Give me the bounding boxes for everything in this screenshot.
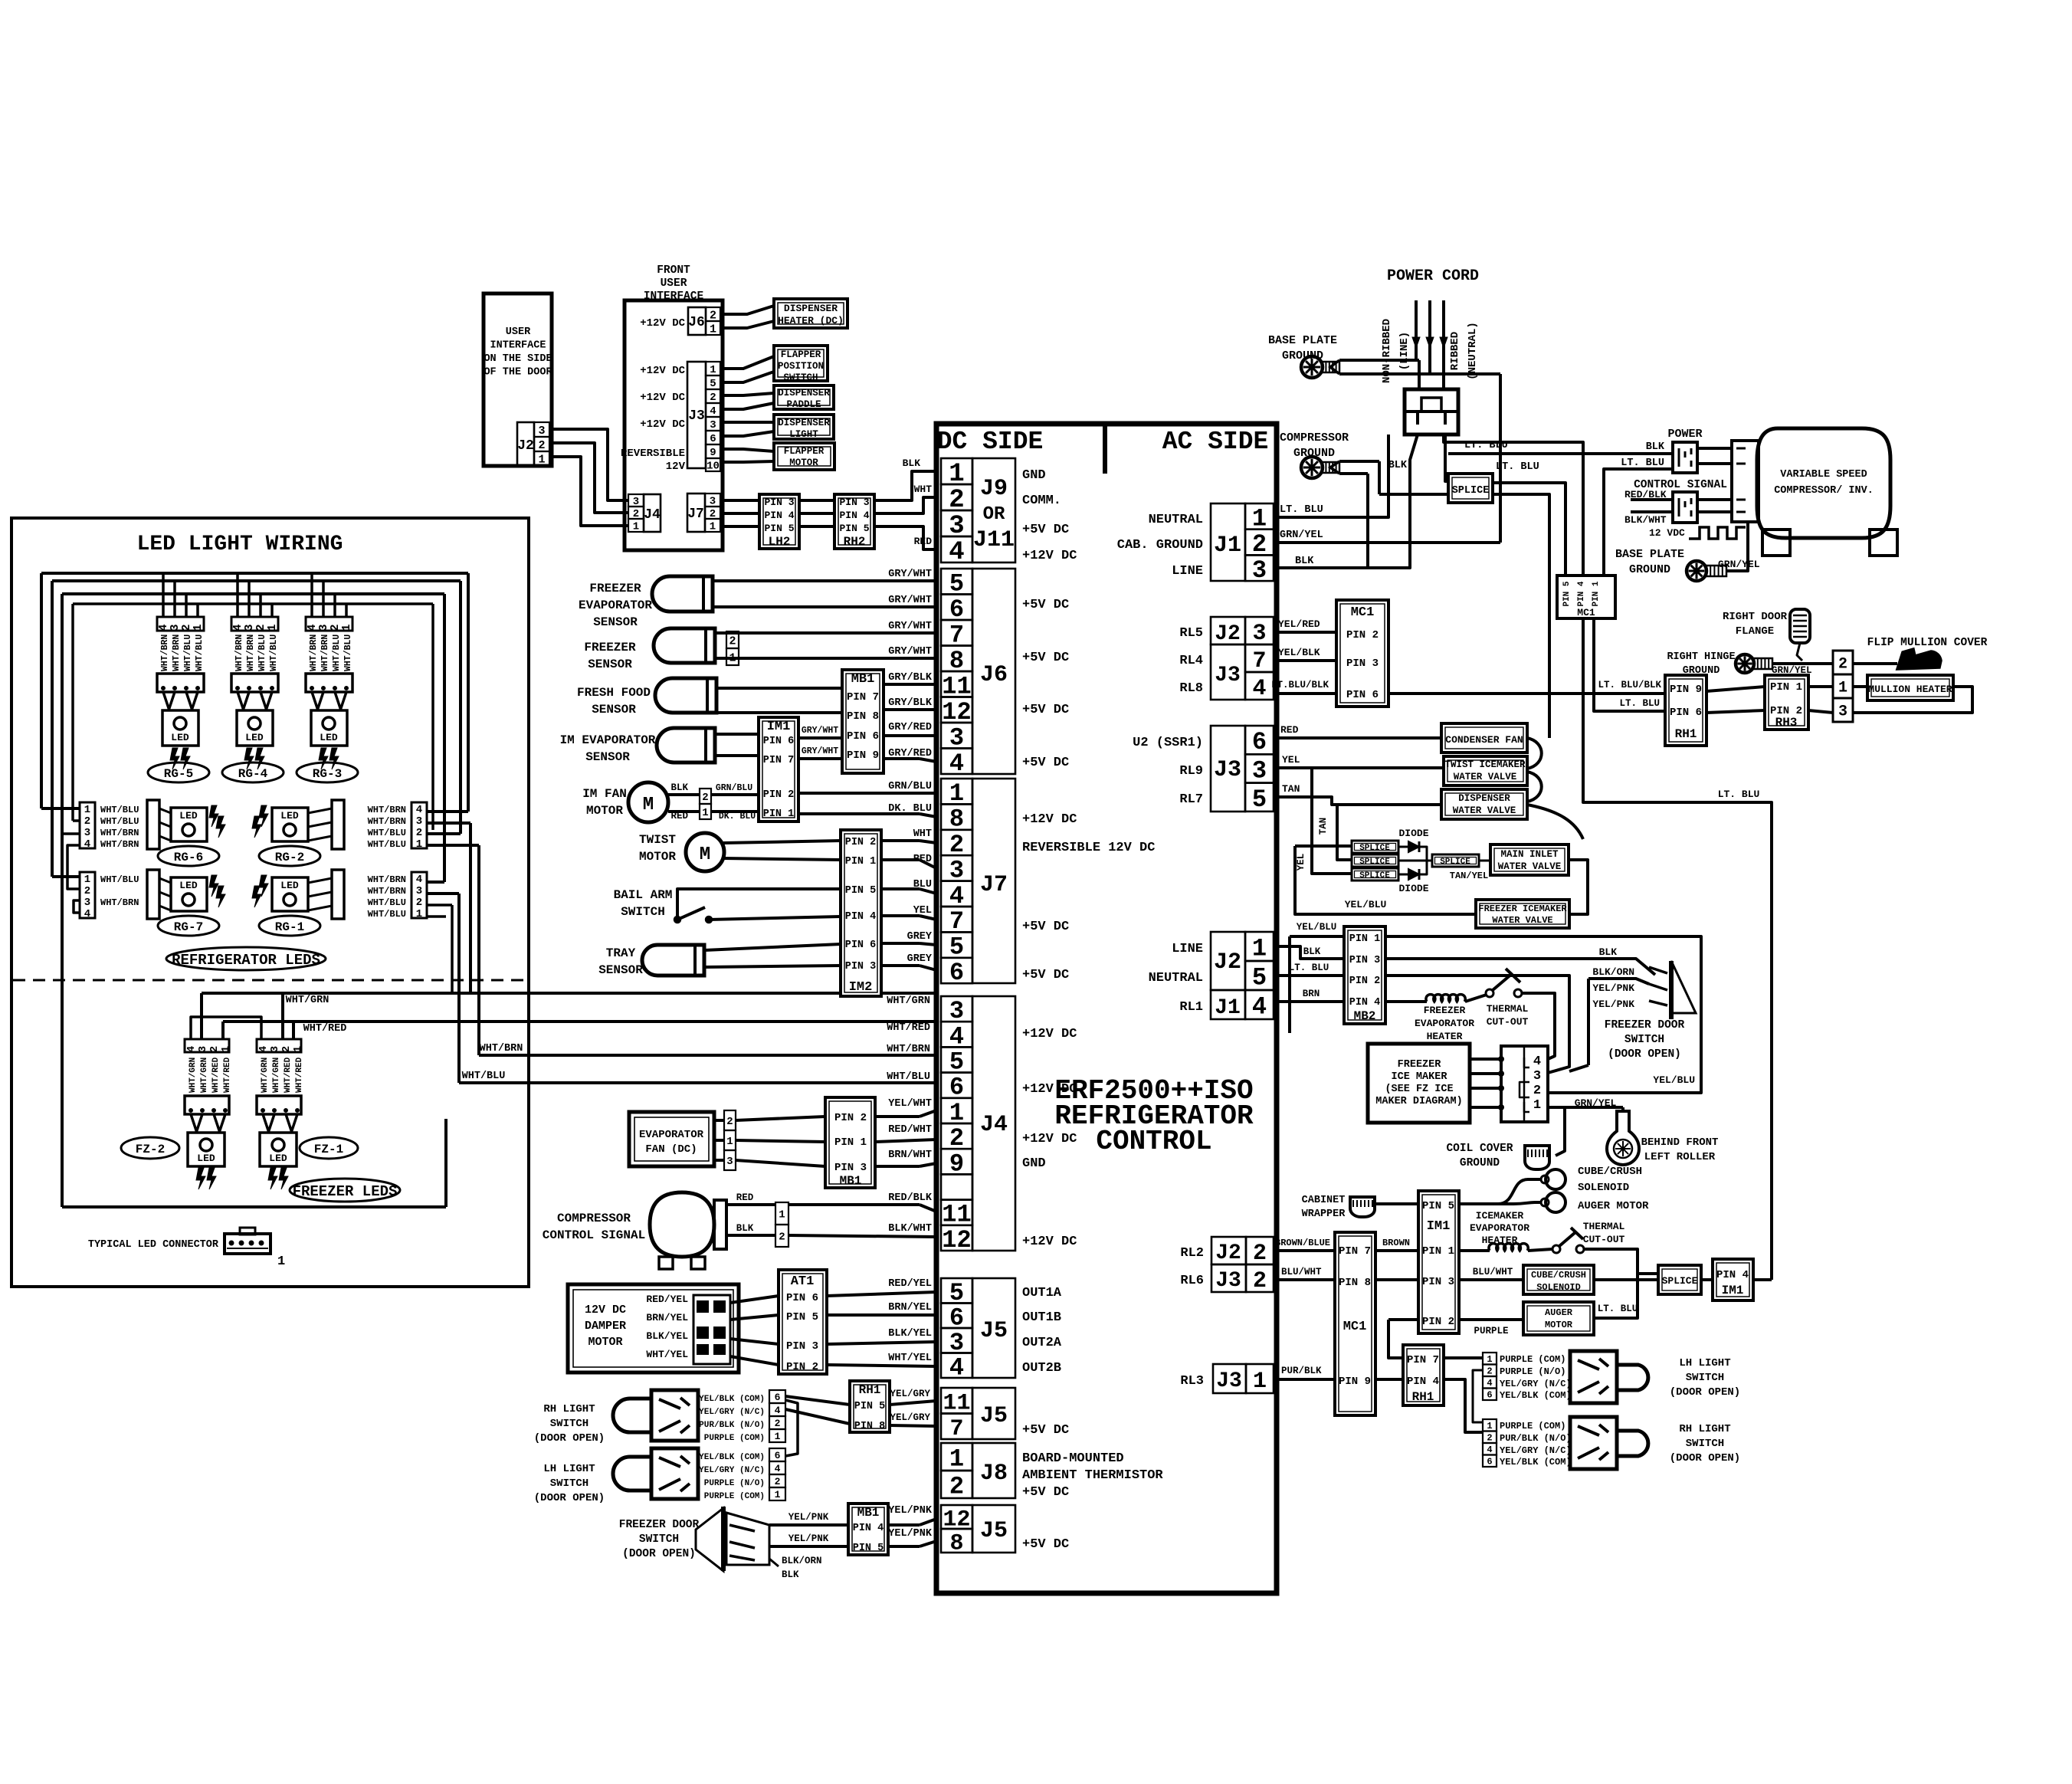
svg-text:1: 1 [775,1489,781,1500]
thermal cut-out 1 [1465,995,1487,1002]
LED module RG-7 connector [80,872,95,918]
svg-text:GRN/BLU: GRN/BLU [716,783,752,793]
LED module RG-6 lamp [171,808,207,841]
svg-text:WHT/BLU: WHT/BLU [462,1071,506,1082]
svg-text:RL6: RL6 [1180,1274,1204,1288]
svg-text:LT. BLU: LT. BLU [1496,461,1539,473]
wire GRY/BLK J6-12 [884,708,936,711]
svg-text:WHT/GRN: WHT/GRN [261,1058,270,1093]
svg-text:LINE: LINE [1172,942,1203,956]
wire J3 to dispenser light [720,421,774,424]
power cord wires [1415,300,1418,360]
svg-text:PIN 5: PIN 5 [839,523,869,534]
svg-text:SPLICE: SPLICE [1359,871,1390,881]
wire column link [1473,1370,1483,1422]
svg-text:SWITCH: SWITCH [1686,1438,1724,1450]
svg-text:5: 5 [1252,964,1267,992]
svg-text:3: 3 [84,897,90,909]
wire WHT/BRN [479,1054,936,1057]
svg-text:PIN 3: PIN 3 [1349,955,1381,966]
svg-text:PIN 6: PIN 6 [847,730,879,743]
wire DK. BLU J7-8 [798,812,920,815]
svg-text:PIN 7: PIN 7 [763,755,795,766]
svg-text:BRN/YEL: BRN/YEL [646,1312,688,1323]
wire RED/WHT J4-2 [875,1140,936,1142]
wire MC1 PIN8 to IM1 PIN3 [1375,1278,1418,1281]
svg-text:(NEUTRAL): (NEUTRAL) [1467,322,1479,380]
svg-text:WATER VALVE: WATER VALVE [1454,772,1517,782]
svg-text:+5V DC: +5V DC [1022,1537,1069,1552]
wire LT. BLU to MB2 PIN2 [1274,974,1344,977]
connector RH2 [834,494,874,549]
svg-text:YEL/RED: YEL/RED [1278,618,1320,630]
svg-text:1: 1 [416,838,422,851]
svg-text:WHT/YEL: WHT/YEL [646,1349,688,1360]
svg-text:CUBE/CRUSH: CUBE/CRUSH [1531,1270,1586,1281]
svg-text:WHT/BLU: WHT/BLU [332,635,342,671]
svg-text:YEL/BLU: YEL/BLU [1653,1074,1695,1086]
wire BRN/WHT J4-9 [875,1165,920,1168]
wire GRY/WHT J6-6 [713,605,936,608]
svg-text:IM1: IM1 [1427,1219,1451,1234]
svg-text:MAIN INLET: MAIN INLET [1500,849,1559,860]
svg-text:1: 1 [1253,1369,1267,1395]
svg-text:BLK: BLK [782,1569,799,1580]
connector RH1 hinge [1665,675,1706,746]
wire TAN dispenser valve [1274,797,1441,805]
splice 1 [1352,841,1398,853]
svg-text:+12V DC: +12V DC [640,317,685,330]
wire J3 to dispenser paddle [720,393,774,395]
svg-text:WHT/BLU: WHT/BLU [368,909,406,920]
svg-text:6: 6 [710,433,716,445]
svg-text:PIN 5: PIN 5 [1562,581,1572,606]
svg-text:DISPENSER: DISPENSER [784,303,838,314]
svg-text:PIN 9: PIN 9 [847,749,879,762]
svg-text:3: 3 [84,827,90,839]
svg-text:WHT/BLU: WHT/BLU [100,816,139,827]
svg-text:TAN/YEL: TAN/YEL [1450,871,1488,881]
svg-text:J5: J5 [980,1318,1008,1344]
svg-text:YEL/BLK (COM): YEL/BLK (COM) [699,1395,765,1404]
svg-text:WHT/BLU: WHT/BLU [195,635,205,671]
svg-text:WHT/BLU: WHT/BLU [368,897,406,908]
svg-text:2: 2 [775,1476,781,1487]
svg-text:FREEZER: FREEZER [584,641,636,654]
svg-text:2: 2 [1487,1366,1492,1377]
svg-text:3: 3 [1838,703,1847,721]
svg-text:WHT: WHT [914,484,933,495]
svg-text:2: 2 [775,1418,781,1429]
wire WHT/YEL J5-4 [827,1365,936,1366]
compressor feet [1762,530,1790,556]
svg-text:1: 1 [84,874,90,886]
svg-text:SWITCH: SWITCH [639,1533,679,1546]
svg-text:WATER VALVE: WATER VALVE [1498,861,1562,872]
svg-text:J6: J6 [980,662,1008,688]
pin column RH switch [769,1390,785,1403]
svg-text:SPLICE: SPLICE [1662,1275,1698,1287]
svg-text:WHT/BLU: WHT/BLU [343,635,353,671]
svg-text:RIBBED: RIBBED [1449,332,1461,370]
svg-text:POWER: POWER [1667,428,1702,441]
svg-text:SWITCH: SWITCH [1624,1034,1664,1046]
wire WHT/BLU [459,1081,936,1084]
svg-text:PIN 1: PIN 1 [763,808,795,820]
svg-text:2: 2 [208,1046,221,1052]
svg-text:(DOOR OPEN): (DOOR OPEN) [622,1548,696,1560]
svg-text:WATER VALVE: WATER VALVE [1492,915,1552,926]
wire base plate ground 2 [1726,522,1748,571]
svg-text:WHT/BRN: WHT/BRN [368,816,406,827]
svg-text:INTERFACE: INTERFACE [644,290,704,303]
icemaker connector 4321 [1501,1046,1548,1122]
svg-text:+5V DC: +5V DC [1022,598,1069,612]
auger motor box [1523,1302,1594,1335]
svg-text:PIN 7: PIN 7 [1339,1245,1371,1258]
dispenser paddle box [774,385,834,409]
svg-text:YEL/PNK: YEL/PNK [788,1512,829,1523]
LED light wiring enclosure [11,518,529,1287]
svg-text:7: 7 [1252,648,1266,674]
splice 2 [1352,854,1398,867]
svg-text:LED: LED [171,732,189,743]
svg-text:HEATER: HEATER [1427,1031,1463,1042]
connector J7 front UI [687,494,705,532]
splice 4 [1398,860,1432,862]
wire J6 to dispenser heater [720,306,774,314]
svg-text:POWER CORD: POWER CORD [1387,267,1479,285]
front user interface box [625,300,723,550]
svg-text:RL3: RL3 [1180,1374,1204,1389]
wire IM1 PIN2 to auger motor [1459,1318,1523,1321]
LED module FZ-2 housing [185,1096,229,1114]
wire YEL/BLU to MB2 PIN1 [1290,935,1344,938]
svg-text:MOTOR: MOTOR [639,850,676,864]
svg-text:ICEMAKER: ICEMAKER [1476,1210,1524,1222]
wire GRY/BLK J6-11 [884,683,936,686]
svg-text:BLU/WHT: BLU/WHT [1473,1267,1513,1277]
svg-text:+12V DC: +12V DC [1022,1235,1077,1249]
svg-text:WHT/BRN: WHT/BRN [100,839,139,850]
svg-text:LT.BLU/BLK: LT.BLU/BLK [1271,680,1329,690]
wires RED/BLK BLK/WHT control signal [1631,498,1673,501]
connector J1 AC [1211,503,1245,581]
svg-text:LIGHT: LIGHT [789,429,818,440]
svg-text:1: 1 [416,908,422,920]
svg-text:1: 1 [1252,935,1267,963]
connector MB1 freezer door [848,1504,888,1555]
svg-text:EVAPORATOR: EVAPORATOR [1415,1018,1474,1029]
svg-text:1: 1 [1487,1421,1492,1431]
svg-text:+5V DC: +5V DC [1022,968,1069,982]
mullion heater box [1867,675,1953,700]
svg-text:1: 1 [726,1136,733,1148]
svg-text:RL7: RL7 [1179,792,1203,807]
svg-text:J3: J3 [1216,1369,1242,1393]
wire BROWN/BLUE RL2 [1274,1249,1335,1252]
connector J7 board [941,779,972,804]
LED module RG-5 lamp [162,710,198,746]
wire thermal to connector [1522,993,1555,1059]
svg-text:PIN 1: PIN 1 [1349,933,1381,945]
wire splice to LT BLU run [1493,494,1549,738]
wires IM1 PIN5 to round connectors [1459,1179,1541,1204]
svg-text:PIN 6: PIN 6 [1670,707,1702,719]
svg-text:COMPRESSOR: COMPRESSOR [1280,431,1349,444]
svg-text:J3: J3 [688,408,705,424]
main control board ERF2500 [936,424,1277,1593]
svg-text:PIN 1: PIN 1 [834,1136,867,1149]
svg-text:BLK/YEL: BLK/YEL [646,1330,688,1342]
svg-text:GREY: GREY [907,931,933,943]
svg-text:4: 4 [416,874,422,886]
wire IM1 PIN3 to cube/crush box [1459,1278,1523,1281]
svg-text:1: 1 [779,1209,785,1222]
svg-text:YEL: YEL [1296,854,1306,871]
svg-text:FREEZER DOOR: FREEZER DOOR [1605,1019,1685,1031]
svg-text:YEL/GRY (N/C): YEL/GRY (N/C) [1500,1445,1572,1456]
svg-text:GRY/WHT: GRY/WHT [888,569,932,580]
svg-text:RH LIGHT: RH LIGHT [1679,1423,1730,1435]
svg-text:SOLENOID: SOLENOID [1536,1282,1581,1293]
svg-text:HEATER (DC): HEATER (DC) [778,315,844,326]
svg-text:J2: J2 [517,438,534,454]
svg-text:RH1: RH1 [1675,727,1697,741]
svg-text:PIN 4: PIN 4 [1716,1269,1749,1281]
svg-text:RG-7: RG-7 [174,920,203,934]
svg-text:WHT/BRN: WHT/BRN [100,828,139,838]
behind front left roller ground [1607,1111,1639,1165]
connector compressor 1/2 [775,1202,788,1225]
svg-text:FREEZER: FREEZER [589,582,641,595]
connector LH2 [759,494,799,549]
svg-text:IM1: IM1 [1722,1284,1744,1297]
wire RED RH2 to J9 [874,526,936,549]
svg-text:PIN 1: PIN 1 [1592,581,1601,606]
svg-text:RL1: RL1 [1179,1000,1203,1015]
wire YEL/WHT J4-1 [875,1115,920,1118]
svg-text:GROUND: GROUND [1629,563,1670,576]
svg-text:LED: LED [280,880,299,891]
connector MB1 evap fan [825,1097,875,1188]
svg-text:2: 2 [416,827,422,839]
svg-text:1: 1 [710,364,716,376]
flapper position switch box [774,346,828,381]
svg-text:LT. BLU/BLK: LT. BLU/BLK [1598,680,1661,690]
svg-text:REVERSIBLE 12V DC: REVERSIBLE 12V DC [1022,841,1155,855]
svg-text:TWIST: TWIST [639,833,676,847]
svg-text:FRONT: FRONT [657,264,690,277]
svg-text:4: 4 [84,908,90,920]
label RG-1 [259,916,320,936]
svg-text:PIN 2: PIN 2 [763,789,795,801]
svg-text:(DOOR OPEN): (DOOR OPEN) [534,1432,605,1445]
label RG-7 [158,916,219,936]
svg-text:9: 9 [710,447,716,459]
connector freezer sensor 2/1 [726,631,739,648]
svg-text:12V DC: 12V DC [585,1304,626,1317]
svg-text:MB2: MB2 [1354,1009,1376,1023]
svg-text:YEL/PNK: YEL/PNK [888,1505,933,1517]
svg-text:4: 4 [84,838,90,851]
svg-text:ON THE SIDE: ON THE SIDE [484,353,552,365]
svg-text:WHT/GRN: WHT/GRN [189,1058,198,1093]
svg-text:PIN 2: PIN 2 [1422,1316,1454,1328]
svg-text:BLK/WHT: BLK/WHT [1624,514,1667,526]
svg-text:1: 1 [277,1254,285,1269]
svg-text:3: 3 [710,419,716,431]
connector 2/1/3 mullion [1833,651,1853,674]
svg-text:M: M [700,844,710,865]
svg-text:RED: RED [914,536,933,547]
LED module RG-7 housing [147,870,159,919]
svg-text:LT. BLU: LT. BLU [1619,698,1660,709]
svg-text:6: 6 [1487,1390,1492,1401]
svg-text:RL9: RL9 [1179,764,1203,779]
svg-text:CUT-OUT: CUT-OUT [1487,1016,1529,1028]
svg-text:PURPLE: PURPLE [1474,1326,1508,1336]
splice 3 [1352,868,1398,881]
wire base plate ground fork [1339,359,1419,362]
connector J3 front UI [687,362,706,468]
wire GREY J7-5 [881,942,920,945]
wire RG-6 RG-7 links [67,845,80,889]
svg-text:RIGHT HINGE: RIGHT HINGE [1667,651,1735,663]
wire GRN/YEL roller [1548,1107,1565,1156]
svg-text:2: 2 [84,885,90,897]
wire bottom loop [62,1205,446,1208]
svg-text:NEUTRAL: NEUTRAL [1149,513,1203,527]
svg-text:FLANGE: FLANGE [1736,625,1774,638]
svg-text:CONTROL: CONTROL [1096,1126,1211,1157]
svg-text:WHT/GRN: WHT/GRN [286,995,329,1006]
svg-text:4: 4 [949,749,964,778]
svg-text:RL2: RL2 [1180,1246,1204,1261]
svg-text:RL5: RL5 [1179,626,1203,641]
wires splice to PIN4 IM1 [1701,1278,1713,1281]
wire RH1 PIN4 to switch column [1444,1379,1483,1432]
svg-text:BLK: BLK [903,457,921,469]
svg-text:SPLICE: SPLICE [1359,858,1390,867]
svg-text:3: 3 [726,1156,733,1168]
svg-text:WHT: WHT [913,828,932,840]
svg-text:RED/YEL: RED/YEL [646,1294,688,1305]
svg-text:WATER VALVE: WATER VALVE [1453,805,1516,816]
connector MC1 lower [1335,1232,1375,1415]
svg-text:BROWN/BLUE: BROWN/BLUE [1275,1238,1330,1248]
svg-text:YEL/BLK (COM): YEL/BLK (COM) [1500,1390,1572,1401]
wire GRY/WHT J6-8 [715,657,936,660]
svg-text:PIN 1: PIN 1 [1770,681,1802,694]
svg-text:PIN 3: PIN 3 [786,1340,818,1353]
svg-text:BRN: BRN [1303,989,1320,999]
svg-text:SPLICE: SPLICE [1359,844,1390,853]
wires switch columns to RH1 [785,1396,850,1405]
svg-text:WHT/BLU: WHT/BLU [257,635,267,671]
wires ice maker to connector [1470,1058,1501,1061]
pin column LH switch [769,1448,785,1461]
svg-text:PIN 5: PIN 5 [853,1543,884,1554]
svg-text:RED/BLK: RED/BLK [1624,489,1667,500]
upper pin column 1246 [1483,1353,1497,1365]
svg-text:BLK/YEL: BLK/YEL [888,1328,932,1340]
svg-text:PIN 4: PIN 4 [845,911,877,923]
connector J2/J3 RL2 RL6 [1211,1237,1246,1264]
LED module RG-4 housing [231,674,278,692]
svg-text:COMM.: COMM. [1022,494,1061,508]
svg-text:WHT/BRN: WHT/BRN [309,635,319,671]
svg-text:WHT/RED: WHT/RED [284,1057,293,1093]
svg-text:PIN 8: PIN 8 [847,710,879,723]
svg-text:WHT/BRN: WHT/BRN [480,1043,523,1054]
svg-text:DISPENSER: DISPENSER [778,418,830,428]
svg-text:6: 6 [1487,1457,1492,1468]
svg-text:3: 3 [1252,756,1267,785]
svg-text:3: 3 [416,815,422,828]
svg-text:WHT/BLU: WHT/BLU [183,635,193,671]
svg-text:FREEZER LEDS: FREEZER LEDS [293,1183,398,1200]
svg-text:4: 4 [1252,676,1266,702]
svg-text:(DOOR OPEN): (DOOR OPEN) [1608,1048,1681,1061]
wires IM1 to MB1 GRY/WHT [798,736,842,740]
svg-text:OF THE DOOR: OF THE DOOR [484,367,552,379]
svg-text:YEL/GRY (N/C): YEL/GRY (N/C) [699,1466,765,1475]
svg-text:J1: J1 [1214,533,1241,559]
svg-text:PIN 9: PIN 9 [1670,684,1702,696]
svg-text:RH1: RH1 [859,1383,881,1397]
svg-text:RG-1: RG-1 [275,920,304,934]
svg-text:FZ-2: FZ-2 [136,1143,165,1156]
svg-text:BOARD-MOUNTED: BOARD-MOUNTED [1022,1451,1124,1466]
svg-text:USER: USER [506,326,531,338]
svg-text:+5V DC: +5V DC [1022,920,1069,934]
svg-text:RL8: RL8 [1179,681,1203,696]
svg-text:RH2: RH2 [844,535,866,549]
svg-text:10: 10 [707,461,720,473]
wire BROWN MC1 to IM1 [1375,1249,1418,1252]
svg-text:8: 8 [949,1530,963,1556]
svg-text:PIN 2: PIN 2 [786,1361,818,1373]
svg-text:J3: J3 [1214,757,1241,783]
svg-text:PURPLE (COM): PURPLE (COM) [704,1434,765,1443]
svg-text:J1: J1 [1215,996,1241,1020]
svg-text:YEL/BLU: YEL/BLU [1345,899,1387,910]
svg-text:J4: J4 [644,507,661,523]
wire RED/BLK J4-11 [788,1203,920,1206]
svg-text:BLU: BLU [913,879,932,890]
svg-text:J11: J11 [973,527,1015,553]
svg-text:SWITCH: SWITCH [550,1477,588,1490]
svg-text:EVAPORATOR: EVAPORATOR [639,1129,704,1141]
wire LT. BLU J1-1 [1274,435,1388,517]
svg-text:FLIP MULLION COVER: FLIP MULLION COVER [1867,637,1988,649]
svg-text:GRY/RED: GRY/RED [888,722,932,733]
svg-text:2: 2 [726,1116,733,1128]
svg-text:SENSOR: SENSOR [593,615,638,629]
svg-text:PUR/BLK (N/O): PUR/BLK (N/O) [699,1421,765,1430]
svg-text:YEL/PNK: YEL/PNK [1592,982,1634,994]
svg-text:IM2: IM2 [849,980,873,995]
wire plug to power connector BLK [1448,452,1673,455]
svg-text:YEL/BLK (COM): YEL/BLK (COM) [1500,1457,1572,1468]
wire YEL/PNK J5-8 [888,1545,920,1548]
svg-text:FLAPPER: FLAPPER [784,446,825,457]
svg-text:2: 2 [710,392,716,404]
LED module FZ-1 housing [257,1096,301,1114]
svg-text:GND: GND [1022,468,1046,483]
flapper motor box [774,443,834,470]
